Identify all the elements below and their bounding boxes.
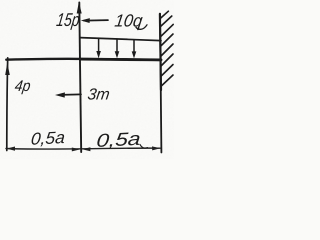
- wall hatching stroke 5: [161, 44, 173, 56]
- wall hatching stroke 1: [160, 11, 168, 18]
- distributed load arrow 1: [96, 39, 101, 58]
- dimension arrowhead right (points right): [152, 146, 161, 150]
- beam member (horizontal): [6, 59, 161, 60]
- wall support line (right): [160, 14, 161, 153]
- force 4p arrowhead (up, below beam left end): [5, 63, 10, 75]
- svg-text:10q: 10q: [113, 10, 143, 30]
- distributed load top line: [80, 38, 161, 41]
- left vertical member / extension line: [6, 58, 9, 151]
- label 10q swash tail: [136, 25, 147, 30]
- wall hatching stroke 8: [161, 75, 173, 86]
- distributed load arrow 2: [115, 40, 120, 59]
- distributed load arrow 3: [132, 40, 137, 58]
- label 0,5a right swash tail: [140, 145, 148, 149]
- dimension arrowhead left (points left): [6, 147, 15, 151]
- column member (central vertical line): [79, 3, 81, 153]
- wall hatching stroke 2: [161, 16, 172, 27]
- dimension line (bottom): [6, 148, 160, 149]
- svg-text:4p: 4p: [14, 78, 32, 95]
- wall hatching stroke 3: [161, 24, 174, 36]
- wall hatching stroke 7: [161, 65, 173, 77]
- svg-text:0,5a: 0,5a: [30, 128, 66, 149]
- force 15p arrowhead (up): [77, 2, 82, 14]
- force 10q arrow (horizontal, pointing left at column top): [84, 19, 108, 22]
- moment 3m arrow (horizontal, pointing left): [61, 93, 82, 96]
- svg-text:0,5a: 0,5a: [96, 128, 142, 151]
- svg-text:3m: 3m: [86, 86, 111, 104]
- dimension arrowhead middle-left (points right): [72, 148, 80, 152]
- wall hatching stroke 6: [161, 54, 173, 66]
- svg-text:15p: 15p: [55, 9, 81, 30]
- dimension arrowhead middle-right (points left): [82, 147, 90, 151]
- wall hatching stroke 4: [161, 34, 173, 46]
